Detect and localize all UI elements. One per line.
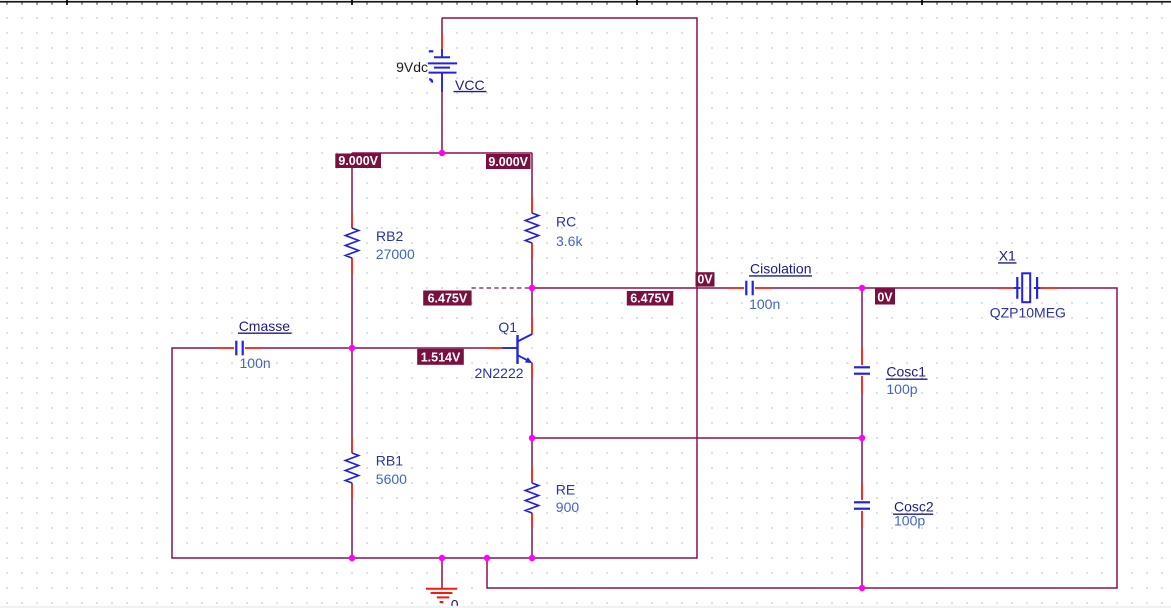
wire collector node to Cisolation [532,287,727,289]
node junction at 862,588 [859,585,865,591]
wire battery top lead [441,18,443,33]
wire RE bottom to ground [531,528,533,558]
resistor RB2 [345,213,358,273]
node junction at 352,348 [349,345,355,351]
svg-text:100n: 100n [749,296,780,312]
svg-text:100p: 100p [886,381,917,397]
svg-text:Cosc1: Cosc1 [886,364,926,380]
wire Cisolation to crystal [772,287,997,289]
voltage label 1.514V (base probe) [417,349,464,365]
capacitor Cisolation [727,281,772,296]
text 100p (Cosc2) [894,512,925,528]
svg-text:6.475V: 6.475V [428,291,468,305]
node junction at 352,558 [349,555,355,561]
wire node OUT down to Cosc1 [861,288,863,348]
node junction at 862,288 [859,285,865,291]
svg-text:RB1: RB1 [376,453,403,469]
svg-text:9.000V: 9.000V [338,154,378,168]
wire emitter output [532,437,862,439]
svg-text:QZP10MEG: QZP10MEG [990,304,1066,320]
dashed leader to 6.475V probe label [472,287,529,289]
svg-text:900: 900 [556,499,580,515]
text RB1 [376,453,403,469]
wire Cosc1 to Cosc2 [861,393,863,483]
svg-text:0V: 0V [697,272,713,286]
text RE [556,482,575,498]
svg-text:Q1: Q1 [498,319,517,335]
node junction at 442,153 [439,150,445,156]
node junction at 862,438 [859,435,865,441]
ruler minor ticks [7,3,1162,5]
text QZP10MEG [990,304,1066,320]
resistor RC [525,198,538,258]
wire Cmasse to base (node B) [262,347,487,349]
label Cisolation [749,261,812,277]
svg-text:9Vdc: 9Vdc [396,59,428,75]
ground symbol (net 0) [426,589,457,602]
voltage label 6.475V (collector probe) [423,291,471,306]
wire RB2 top [351,153,353,213]
svg-text:100p: 100p [894,512,925,528]
node junction at 532,438 [529,435,535,441]
wire emitter to RE [531,378,533,468]
svg-text:3.6k: 3.6k [556,233,583,249]
text Q1 [498,319,517,335]
svg-text:1.514V: 1.514V [421,351,461,365]
resistor RE [525,468,538,528]
wire VCC-top / 0V return / ground rail / left column [172,18,697,558]
capacitor Cosc2 [854,483,870,528]
text 2N2222 [475,365,524,381]
svg-text:100n: 100n [240,355,271,371]
voltage label 6.475V (collector right) [627,291,674,306]
text 5600 [376,471,407,487]
text RB2 [376,228,403,244]
label X1 [998,248,1017,264]
node junction at 532,288 [529,285,535,291]
label VCC [454,77,487,93]
svg-text:0V: 0V [877,290,893,304]
text 27000 [376,246,415,262]
text 100n (Cmasse) [240,355,271,371]
svg-text:6.475V: 6.475V [630,291,670,305]
node junction at 487,558 [484,555,490,561]
wire RC top [531,153,533,198]
resistor RB1 [345,438,358,498]
label Cmasse [238,318,292,334]
wire RC bottom to collector [531,258,533,318]
wire 9V rail [352,152,532,154]
svg-text:9.000V: 9.000V [488,155,528,169]
wire RB1 bottom to ground [351,498,353,558]
wire ground stub [441,558,443,588]
text 100n (Cisolation) [749,296,780,312]
voltage label 9.000V (rail left) [335,154,381,169]
battery V1 9Vdc (VCC source) [428,33,457,92]
svg-text:X1: X1 [999,248,1016,264]
voltage label 0V (output node) [875,289,895,305]
crystal X1 QZP10MEG [997,273,1057,302]
svg-text:2N2222: 2N2222 [475,365,524,381]
label Cosc1 [886,364,928,380]
window edge strip [0,606,1171,608]
svg-text:5600: 5600 [376,471,407,487]
text 0 (ground net) [451,596,459,608]
voltage label 0V (0V return) [696,272,715,286]
svg-text:VCC: VCC [455,77,485,93]
capacitor Cmasse [217,341,262,356]
ruler major ticks [67,0,922,5]
capacitor Cosc1 [854,348,870,393]
wire RB2 bottom to RB1 top [351,273,353,438]
text 100p (Cosc1) [886,381,917,397]
svg-text:Cmasse: Cmasse [239,318,291,334]
transistor Q1 (2N2222 NPN) [487,318,532,378]
text 3.6k [556,233,583,249]
svg-text:27000: 27000 [376,246,415,262]
label Cosc2 [893,499,934,515]
node junction at 532,558 [529,555,535,561]
wire Cosc2 to bottom return [861,528,863,588]
voltage label 9.000V (rail right) [486,154,531,169]
page ruler bar [0,1,1171,3]
svg-text:RC: RC [556,214,576,230]
text RC [556,214,576,230]
wire battery bottom to VCC rail [441,92,443,153]
text 9Vdc [396,59,428,75]
svg-text:RE: RE [556,482,575,498]
text 900 [556,499,580,515]
svg-text:RB2: RB2 [376,228,403,244]
wire crystal right / bottom return [487,288,1117,588]
node junction at 442,558 [439,555,445,561]
svg-text:Cisolation: Cisolation [750,261,811,277]
